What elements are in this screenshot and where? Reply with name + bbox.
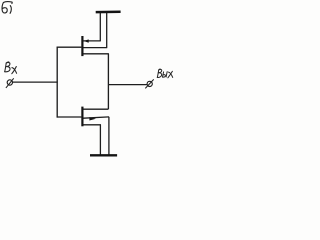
transistor VT2 source lead xyxy=(83,124,101,126)
transistor VT1 substrate lead with arrow xyxy=(83,39,100,42)
transistor VT1 drain lead xyxy=(83,53,109,55)
ground bar xyxy=(90,154,117,156)
output terminal circle xyxy=(145,79,153,88)
transistor VT2 gate/channel bar xyxy=(81,107,83,127)
label Б) xyxy=(2,2,12,14)
input terminal circle xyxy=(6,78,14,88)
label Вых xyxy=(157,69,172,78)
wire: output node vertical (VT1 drain to VT2 drain) xyxy=(107,54,109,110)
wire: VT2 gate lead xyxy=(57,116,82,118)
transistor VT2 substrate lead with arrow xyxy=(83,117,109,121)
transistor VT2 drain lead xyxy=(83,108,108,110)
transistor VT1 source lead xyxy=(83,47,107,49)
wire: VT1 substrate lead to +V rail xyxy=(99,13,101,41)
wire: VT1 gate lead xyxy=(57,46,82,48)
+V power rail bar xyxy=(96,10,121,13)
wire: VT2 substrate to ground bar xyxy=(108,117,110,155)
label Вх xyxy=(5,62,17,74)
wire: VT1 source lead to +V rail xyxy=(106,13,108,48)
wire: output horizontal xyxy=(108,84,147,86)
wire: gate bus vertical (input node) xyxy=(56,47,58,118)
wire: input horizontal xyxy=(13,81,58,83)
wire: VT2 source to ground bar xyxy=(99,125,101,155)
transistor VT1 gate/channel bar xyxy=(81,36,83,56)
